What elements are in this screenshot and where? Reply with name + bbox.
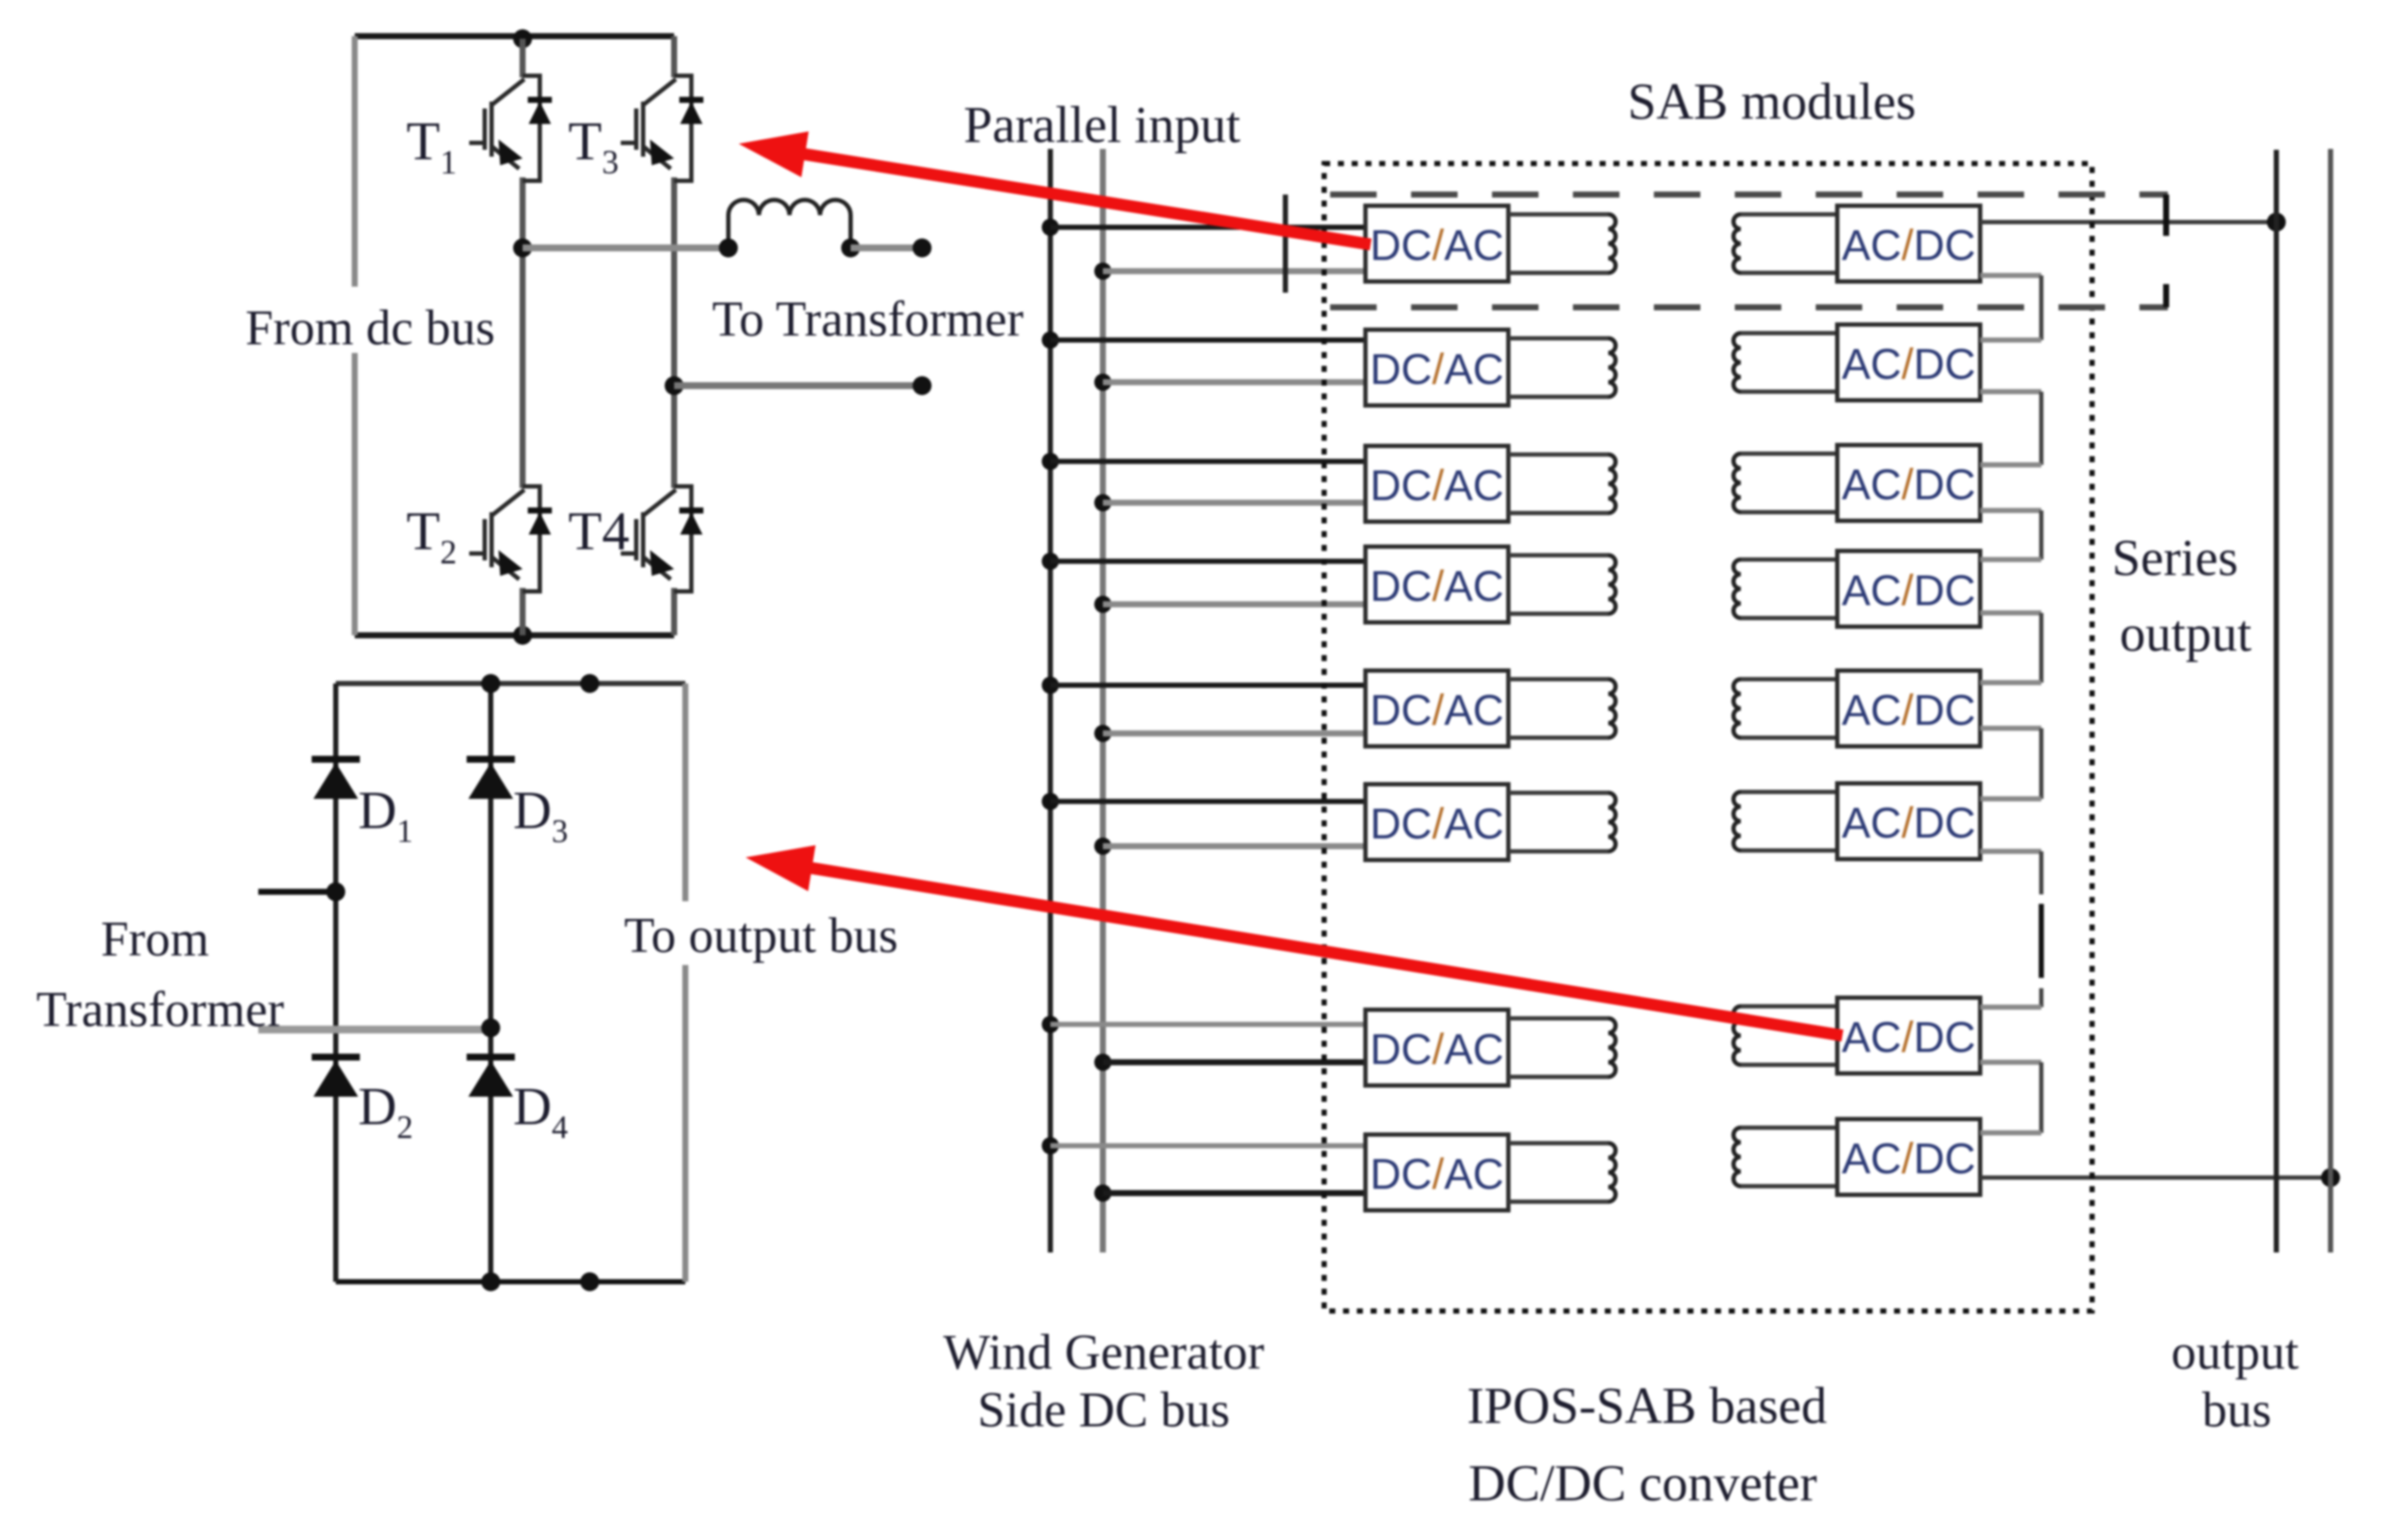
- wire: upper input tap row 2: [1050, 337, 1365, 343]
- transformer winding secondary row 2: [1734, 333, 1838, 392]
- converter block DC/AC row 6: [1365, 784, 1508, 860]
- transformer winding primary row 2: [1508, 338, 1616, 397]
- converter block DC/AC row 5: [1365, 671, 1508, 746]
- node: bus2 tap row 1: [1094, 263, 1111, 280]
- wire: series link module 6 down (break): [1980, 849, 2041, 854]
- transformer winding secondary row 8: [1734, 1128, 1838, 1186]
- wire: H-bridge left side (from dc bus), lower part: [352, 353, 358, 635]
- wire: lower input tap row 1: [1103, 269, 1365, 275]
- wire: series link module 2 to module 3: [1980, 389, 2041, 394]
- svg-text:AC/DC: AC/DC: [1842, 221, 1976, 269]
- wire: series link module 7 to module 8: [1980, 1060, 2041, 1065]
- node: connection on output bus line 1: [2267, 213, 2286, 232]
- wire: upper input tap row 7: [1050, 1022, 1365, 1027]
- converter block DC/AC row 4: [1365, 547, 1508, 622]
- node: bus2 tap row 4: [1094, 596, 1111, 613]
- node: bus1 tap row 1: [1042, 219, 1059, 236]
- converter block AC/DC row 1: [1837, 206, 1980, 281]
- wire: upper input tap row 5: [1050, 683, 1365, 688]
- transformer winding secondary row 3: [1734, 454, 1838, 512]
- converter block DC/AC row 1: [1365, 206, 1508, 281]
- boundary: IPOS-SAB converter dotted box: [1324, 164, 2092, 1311]
- svg-text:DC/AC: DC/AC: [1370, 686, 1504, 734]
- node: bus1 tap row 7: [1042, 1016, 1059, 1033]
- svg-text:DC/AC: DC/AC: [1370, 800, 1504, 848]
- svg-text:T4: T4: [568, 500, 629, 561]
- wire: upper input tap row 6: [1050, 799, 1365, 804]
- node: bus1 tap row 5: [1042, 677, 1059, 694]
- wire: right leg segments: [672, 36, 678, 77]
- svg-text:DC/DC conveter: DC/DC conveter: [1469, 1455, 1817, 1512]
- transformer winding primary row 6: [1508, 793, 1616, 851]
- node: transformer terminal A: [913, 238, 932, 257]
- node: bottom rail junction 2: [580, 1272, 599, 1291]
- node: bus1 tap row 4: [1042, 553, 1059, 570]
- node: left leg midpoint output: [513, 238, 532, 257]
- wire: midpoint to inductor: [523, 244, 728, 251]
- wire: left leg segments: [520, 39, 526, 77]
- svg-text:DC/AC: DC/AC: [1370, 1025, 1504, 1073]
- svg-text:From: From: [101, 911, 209, 967]
- wire: lower input tap row 6: [1103, 844, 1365, 850]
- node: bus1 tap row 6: [1042, 793, 1059, 810]
- converter block AC/DC row 2: [1837, 325, 1980, 400]
- node: top rail junction 1: [481, 674, 500, 693]
- node: top-center junction: [513, 29, 532, 48]
- svg-text:AC/DC: AC/DC: [1842, 461, 1976, 509]
- red annotation arrow 1 (to H-bridge): [796, 153, 1371, 244]
- wire: module1 positive output to output bus: [1980, 220, 2276, 225]
- svg-text:DC/AC: DC/AC: [1370, 1150, 1504, 1198]
- node: bus2 tap row 8: [1094, 1184, 1111, 1202]
- wire: lower input tap row 8: [1103, 1191, 1365, 1197]
- wire: lower input tap row 7: [1103, 1060, 1365, 1066]
- transformer winding secondary row 1: [1734, 214, 1838, 273]
- boundary: SAB module 1 dashed box bottom edge: [1330, 305, 2168, 311]
- node: bus1 tap row 2: [1042, 331, 1059, 349]
- transformer winding secondary row 4: [1734, 560, 1838, 618]
- node: bus2 tap row 6: [1094, 838, 1111, 855]
- wire: series link module 1 to module 2: [1980, 273, 2041, 278]
- wire: lower input tap row 4: [1103, 602, 1365, 608]
- converter block AC/DC row 6: [1837, 783, 1980, 859]
- converter block AC/DC row 4: [1837, 551, 1980, 627]
- svg-text:output: output: [2171, 1324, 2299, 1380]
- wire: output bus line 2: [2328, 149, 2333, 1252]
- wire: upper input tap row 1: [1050, 225, 1365, 230]
- svg-text:From dc bus: From dc bus: [245, 300, 495, 356]
- wire: series link module 4 to module 5: [1980, 610, 2041, 615]
- diode D1: [312, 756, 360, 763]
- wire: bridge left leg (D1/D2): [333, 683, 338, 1282]
- svg-text:DC/AC: DC/AC: [1370, 461, 1504, 510]
- svg-text:DC/AC: DC/AC: [1370, 221, 1504, 269]
- converter block DC/AC row 2: [1365, 330, 1508, 405]
- wire: module8 negative output to output bus: [1980, 1176, 2331, 1180]
- transformer winding primary row 4: [1508, 555, 1616, 614]
- converter block AC/DC row 3: [1837, 445, 1980, 521]
- svg-text:bus: bus: [2202, 1382, 2272, 1438]
- node: right leg midpoint output: [665, 376, 684, 395]
- transistor T2: [469, 486, 540, 591]
- transformer winding secondary row 7: [1734, 1006, 1838, 1065]
- converter block AC/DC row 7: [1837, 998, 1980, 1073]
- svg-text:AC/DC: AC/DC: [1842, 1013, 1976, 1061]
- svg-text:Series: Series: [2112, 529, 2238, 586]
- diode D4: [467, 1054, 515, 1061]
- wire: output bus line 1: [2274, 150, 2279, 1252]
- wire: transformer input top: [258, 889, 336, 895]
- wire: lower input tap row 3: [1103, 500, 1365, 506]
- node: transformer terminal B: [913, 376, 932, 395]
- wire: right leg midpoint to transformer terminal: [674, 382, 922, 389]
- wire: H-bridge bottom rail: [355, 633, 674, 639]
- diode D2: [312, 1054, 360, 1061]
- node: bottom rail junction 1: [481, 1272, 500, 1291]
- svg-text:SAB modules: SAB modules: [1627, 73, 1916, 130]
- svg-text:Parallel input: Parallel input: [963, 96, 1241, 153]
- svg-text:output: output: [2120, 605, 2252, 662]
- transformer winding secondary row 5: [1734, 679, 1838, 738]
- wire: H-bridge left side (from dc bus), upper part: [352, 36, 358, 287]
- wire: lower input tap row 5: [1103, 731, 1365, 737]
- transformer winding primary row 7: [1508, 1018, 1616, 1077]
- transformer winding primary row 1: [1508, 214, 1616, 273]
- node: bus2 tap row 3: [1094, 494, 1111, 511]
- node: bus2 tap row 7: [1094, 1054, 1111, 1071]
- svg-text:AC/DC: AC/DC: [1842, 1135, 1976, 1183]
- svg-text:AC/DC: AC/DC: [1842, 340, 1976, 388]
- node: bus2 tap row 2: [1094, 374, 1111, 391]
- wire: upper input tap row 3: [1050, 459, 1365, 464]
- wire: bridge bottom rail: [336, 1279, 685, 1284]
- svg-text:Side DC bus: Side DC bus: [977, 1382, 1229, 1438]
- inductor L (series filter): [728, 200, 851, 248]
- svg-text:IPOS-SAB based: IPOS-SAB based: [1467, 1377, 1827, 1434]
- converter block DC/AC row 7: [1365, 1010, 1508, 1085]
- node: connection on output bus line 2: [2321, 1168, 2340, 1187]
- transistor T4: [621, 486, 691, 591]
- transformer winding primary row 5: [1508, 679, 1616, 738]
- svg-text:To Transformer: To Transformer: [712, 291, 1024, 347]
- converter block AC/DC row 5: [1837, 671, 1980, 746]
- node: input junction on left leg: [326, 882, 345, 901]
- node: bottom-center junction: [513, 626, 532, 645]
- wire: bridge right side upper (to output bus): [683, 683, 689, 901]
- node: bus1 tap row 8: [1042, 1137, 1059, 1154]
- boundary: dashed box right edge stubs: [2164, 195, 2170, 236]
- wire: inductor to transformer terminal: [851, 244, 922, 251]
- svg-text:AC/DC: AC/DC: [1842, 566, 1976, 615]
- node: bus2 tap row 5: [1094, 725, 1111, 742]
- svg-text:DC/AC: DC/AC: [1370, 562, 1504, 610]
- wire: upper input tap row 4: [1050, 559, 1365, 564]
- svg-text:Transformer: Transformer: [36, 981, 284, 1037]
- svg-text:AC/DC: AC/DC: [1842, 686, 1976, 734]
- diode D3: [467, 756, 515, 763]
- node: inductor right terminal: [841, 238, 860, 257]
- converter block DC/AC row 8: [1365, 1135, 1508, 1210]
- converter block AC/DC row 8: [1837, 1119, 1980, 1195]
- node: inductor left terminal: [719, 238, 738, 257]
- wire: tick mark before module row 1: [1283, 195, 1288, 293]
- transformer winding secondary row 6: [1734, 792, 1838, 850]
- transistor T3: [621, 76, 691, 181]
- wire: bridge middle leg (D3/D4): [488, 683, 493, 1282]
- wire: transformer input bottom: [258, 1026, 491, 1034]
- wire: bridge right side lower: [683, 965, 689, 1282]
- wire: ellipsis dash on series chain: [2039, 904, 2044, 978]
- node: bus1 tap row 3: [1042, 453, 1059, 470]
- transformer winding primary row 3: [1508, 455, 1616, 513]
- svg-text:AC/DC: AC/DC: [1842, 799, 1976, 847]
- svg-text:To output bus: To output bus: [624, 907, 898, 963]
- transformer winding primary row 8: [1508, 1143, 1616, 1202]
- wire: wind generator side DC bus line 2: [1100, 149, 1106, 1252]
- boundary: SAB module 1 dashed box top edge: [1330, 192, 2168, 198]
- wire: bridge top rail: [336, 681, 685, 686]
- wire: series link module 3 to module 4: [1980, 508, 2041, 513]
- svg-text:DC/AC: DC/AC: [1370, 345, 1504, 393]
- node: top rail junction 2: [580, 674, 599, 693]
- wire: wind generator side DC bus line 1: [1048, 149, 1053, 1252]
- svg-text:Wind Generator: Wind Generator: [944, 1324, 1265, 1380]
- wire: series link module 5 to module 6: [1980, 726, 2041, 731]
- wire: H-bridge top rail: [355, 34, 674, 40]
- wire: series link resume to module 7: [2040, 988, 2044, 1007]
- node: input junction on middle leg: [481, 1018, 500, 1037]
- wire: upper input tap row 8: [1050, 1143, 1365, 1148]
- wire: lower input tap row 2: [1103, 380, 1365, 386]
- red annotation arrow 2 (to diode bridge): [803, 867, 1842, 1036]
- transistor T1: [469, 76, 540, 181]
- converter block DC/AC row 3: [1365, 446, 1508, 522]
